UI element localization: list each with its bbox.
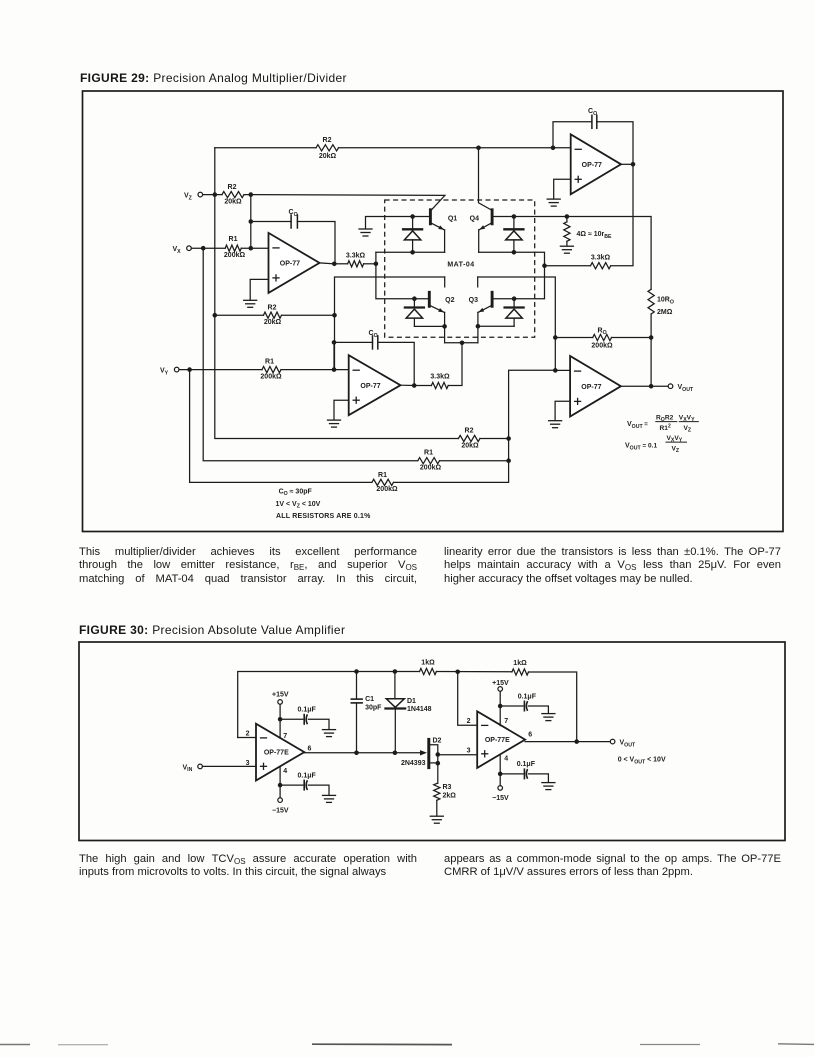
wire node-B vertical (Vz node bus) bbox=[215, 148, 459, 439]
wire bottom R2 bus right segment bbox=[480, 438, 509, 440]
svg-text:10RO: 10RO bbox=[657, 297, 674, 306]
wire 10Ro to Ro node bbox=[650, 314, 652, 338]
resistor R3 2kΩ bbox=[434, 783, 440, 800]
label 10R_O bbox=[657, 297, 674, 306]
formula Vout = RoR2/R1^2 * VxVy/Vz bbox=[627, 414, 698, 433]
label V_IN bbox=[183, 764, 193, 773]
svg-text:VOUT =: VOUT = bbox=[627, 421, 648, 430]
junction minus node / Co line bbox=[249, 219, 254, 224]
svg-text:CO: CO bbox=[289, 209, 298, 218]
junction -15V / bypass bbox=[278, 783, 283, 788]
junction Ro left node bbox=[553, 335, 558, 340]
diode Q4 base-emitter bbox=[504, 217, 523, 253]
label R2 Vz bbox=[228, 184, 237, 191]
paragraph after figure 29, right column bbox=[444, 546, 781, 586]
resistor 1kΩ (right, U6 feedback) bbox=[512, 669, 529, 675]
label pin 7 U5 bbox=[283, 733, 287, 740]
junction U3 minus node bbox=[332, 367, 337, 372]
label 20kΩ top bbox=[319, 153, 337, 160]
svg-text:2MΩ: 2MΩ bbox=[657, 309, 673, 316]
label R3 bbox=[443, 784, 452, 791]
svg-text:0.1μF: 0.1μF bbox=[517, 761, 536, 768]
transistor D2 2N4393 JFET bbox=[429, 739, 438, 767]
capacitor 0.1μF U5 top bbox=[304, 714, 307, 724]
wire D1 bottom bbox=[394, 708, 396, 752]
junction +15V / bypass bbox=[278, 717, 283, 722]
wire bridge down to 3.3k (U3 out) bbox=[448, 343, 462, 386]
label 0.1μF U6 bottom bbox=[517, 761, 536, 768]
wire Co to U2 output bbox=[597, 122, 633, 165]
wire emitter node vertical to Q2 base bbox=[376, 252, 429, 298]
note 1V < Vz < 10V bbox=[276, 501, 321, 510]
ground U4 plus bbox=[549, 421, 562, 428]
label pin 6 U5 bbox=[308, 745, 312, 752]
svg-text:VOUT = 0.1: VOUT = 0.1 bbox=[625, 443, 657, 452]
svg-text:R1: R1 bbox=[424, 449, 433, 456]
junction top line / U2 feedback cap bbox=[551, 146, 556, 151]
svg-text:4: 4 bbox=[504, 756, 508, 763]
wire Ro left bbox=[555, 337, 592, 339]
wire -15V to U6 pin4 bbox=[499, 756, 501, 786]
resistor 10R_O 2MΩ bbox=[648, 289, 654, 314]
label 2N4393 bbox=[401, 760, 426, 767]
capacitor 0.1μF U6 bottom bbox=[524, 769, 527, 779]
terminal +15V U5 bbox=[278, 700, 283, 705]
junction riser / bus2 bbox=[506, 458, 511, 463]
label 3.3kΩ U1 bbox=[346, 253, 366, 260]
svg-text:20kΩ: 20kΩ bbox=[264, 319, 282, 326]
svg-text:R1: R1 bbox=[378, 472, 387, 479]
capacitor C1 30pF bbox=[351, 699, 362, 703]
wire D1 top bbox=[394, 672, 396, 699]
wire Q4 collector vertical to U2 minus line bbox=[479, 148, 491, 210]
terminal V_Z bbox=[198, 192, 203, 197]
ground bypass U5 bottom bbox=[323, 795, 336, 802]
wire U3 plus to ground bbox=[334, 400, 349, 420]
junction Vx node-A bbox=[201, 246, 206, 251]
formula Vout = 0.1 VxVy/Vz bbox=[625, 435, 687, 454]
terminal V_X bbox=[187, 246, 192, 251]
label 0.1μF U5 bottom bbox=[298, 772, 317, 779]
svg-text:OP-77E: OP-77E bbox=[264, 750, 289, 757]
svg-text:20kΩ: 20kΩ bbox=[319, 153, 337, 160]
svg-text:1N4148: 1N4148 bbox=[407, 706, 432, 713]
op-amp U2 OP-77 bbox=[571, 134, 621, 194]
svg-text:3.3kΩ: 3.3kΩ bbox=[591, 255, 611, 262]
label 20kΩ fb bbox=[264, 319, 282, 326]
junction Q4 base / diode bbox=[512, 214, 517, 219]
label R1 middle bus bbox=[424, 449, 433, 456]
wire Vy to R1 bbox=[179, 369, 262, 371]
junction U3 fb / Co line bbox=[332, 340, 337, 345]
label 0.1μF U5 top bbox=[298, 707, 317, 714]
svg-text:3.3kΩ: 3.3kΩ bbox=[430, 374, 450, 381]
svg-text:Q4: Q4 bbox=[470, 216, 479, 223]
svg-text:VIN: VIN bbox=[183, 764, 193, 773]
wire C1 top bbox=[356, 672, 358, 700]
junction node-B / R2 fb bbox=[213, 313, 218, 318]
wire Q2 emitter to bridge bbox=[444, 326, 446, 342]
op-amp U6 OP-77E bbox=[477, 711, 525, 768]
wire bypass to ground (U5 bottom) bbox=[308, 785, 329, 795]
resistor 1kΩ (left) bbox=[420, 668, 437, 674]
junction -15V U6 / bypass bbox=[498, 772, 503, 777]
junction U4 output / feedback bbox=[649, 384, 654, 389]
label V_X bbox=[173, 246, 182, 255]
svg-text:CO: CO bbox=[588, 108, 597, 117]
wire Ro node to Vout node bbox=[650, 338, 652, 387]
wire C1 bottom bbox=[356, 703, 358, 753]
svg-text:VOUT: VOUT bbox=[678, 384, 694, 393]
figure 29 border frame bbox=[83, 91, 784, 532]
wire top R2 line right segment to U2 inverting input bbox=[339, 147, 571, 149]
terminal -15V U6 bbox=[498, 786, 503, 791]
resistor 3.3kΩ (U1 output) bbox=[348, 261, 364, 267]
svg-text:OP-77E: OP-77E bbox=[485, 737, 510, 744]
terminal V_IN bbox=[198, 764, 203, 769]
wire Q1 base with ground bbox=[366, 217, 430, 229]
svg-text:0 < VOUT < 10V: 0 < VOUT < 10V bbox=[618, 757, 666, 766]
wire Q3 emitter to bridge bbox=[477, 326, 479, 343]
wire middle bus right segment bbox=[440, 460, 509, 462]
wire U1 out to 3.3k bbox=[334, 263, 347, 265]
diode Q1 base-emitter bbox=[403, 217, 422, 253]
capacitor C_O (U1 feedback) bbox=[291, 215, 297, 228]
svg-text:RO: RO bbox=[598, 327, 607, 336]
junction D2 source / R3 bbox=[436, 761, 441, 766]
arrow JFET gate bbox=[420, 750, 427, 755]
wire Q4 emitter vertical bbox=[478, 230, 480, 252]
label R2 fb bbox=[268, 304, 277, 311]
wire U1 plus input to ground bbox=[250, 279, 268, 300]
wire bypass cap top (U5) bbox=[280, 718, 303, 720]
scan mark bottom 2 bbox=[312, 1043, 452, 1045]
resistor R2 (20k, Vz input) bbox=[222, 192, 244, 198]
wire U1 output bbox=[320, 262, 335, 265]
wire U4 minus input bbox=[555, 369, 570, 371]
wire R1 Vy to U3 minus bbox=[281, 369, 349, 371]
wire R3 to ground bbox=[436, 800, 438, 816]
op-amp U3 OP-77 bbox=[349, 355, 401, 415]
capacitor C_O (U3 feedback) bbox=[373, 336, 378, 349]
label R1 Vx bbox=[229, 236, 238, 243]
wire Q2 collector vertical bbox=[444, 277, 446, 287]
terminal V_OUT fig30 bbox=[610, 739, 615, 744]
resistor 3.3kΩ (U2 output) bbox=[591, 263, 611, 269]
junction rail / C1 bbox=[354, 669, 359, 674]
svg-text:VOUT: VOUT bbox=[620, 740, 636, 749]
junction Q1 base / diode bbox=[410, 214, 415, 219]
label 200kΩ middle bus bbox=[420, 465, 442, 472]
wire Q3 diode to emitter bbox=[478, 325, 514, 327]
junction Q4 bus / 3.3k right bbox=[542, 263, 547, 268]
label R1 bottom bus bbox=[378, 472, 387, 479]
junction U4 minus bbox=[553, 368, 558, 373]
resistor R1 (200k, middle bus) bbox=[418, 458, 440, 464]
junction rail / D1 bbox=[393, 669, 398, 674]
note all resistors bbox=[276, 513, 371, 520]
junction Q4 base / 4ohm bbox=[565, 214, 570, 219]
junction D2 drain / output bbox=[436, 752, 441, 757]
svg-text:200kΩ: 200kΩ bbox=[376, 486, 398, 493]
label R2 top bbox=[323, 137, 332, 144]
wire U2 output bbox=[621, 163, 633, 165]
svg-text:1kΩ: 1kΩ bbox=[421, 660, 435, 667]
svg-text:VZ: VZ bbox=[184, 193, 193, 202]
label pin 3 U6 bbox=[467, 748, 471, 755]
junction U1 inverting input bbox=[249, 246, 254, 251]
svg-text:0.1μF: 0.1μF bbox=[298, 772, 317, 779]
ground U1 plus bbox=[244, 300, 257, 307]
label 4Ω ≈ 10r_BE bbox=[577, 231, 612, 240]
label 30pF bbox=[365, 705, 382, 712]
wire Q2 diode to emitter bbox=[414, 325, 444, 327]
label 3.3kΩ U3 bbox=[430, 374, 450, 381]
svg-text:R12: R12 bbox=[660, 423, 671, 432]
resistor 3.3kΩ (U3 output) bbox=[431, 382, 448, 388]
junction U6 output / feedback bbox=[574, 739, 579, 744]
svg-text:D2: D2 bbox=[433, 737, 442, 744]
svg-text:7: 7 bbox=[283, 733, 287, 740]
resistor R2 (20k, Q2 collector feedback) bbox=[264, 312, 282, 318]
diode D1 1N4148 bbox=[386, 699, 406, 709]
label 1kΩ right bbox=[513, 660, 527, 667]
svg-text:R1: R1 bbox=[229, 236, 238, 243]
MAT-04 dashed outline bbox=[385, 200, 535, 337]
svg-text:OP-77: OP-77 bbox=[582, 162, 602, 169]
label +15V U5 bbox=[272, 692, 289, 699]
diode Q2 base-emitter bbox=[405, 299, 424, 327]
svg-text:1kΩ: 1kΩ bbox=[513, 660, 527, 667]
svg-text:200kΩ: 200kΩ bbox=[420, 465, 442, 472]
figure 30 border frame bbox=[79, 642, 785, 841]
junction Q3 base / diode bbox=[512, 296, 517, 301]
wire Vz line to Q1 collector bbox=[244, 195, 445, 210]
caption figure 29 bbox=[80, 71, 347, 85]
wire Ro right bbox=[612, 337, 652, 339]
wire bypass to ground (U6 top) bbox=[529, 706, 549, 713]
transistor Q4 (MAT-04) bbox=[470, 210, 492, 230]
svg-text:OP-77: OP-77 bbox=[581, 384, 601, 391]
label 200kΩ bottom bus bbox=[376, 486, 398, 493]
svg-text:3.3kΩ: 3.3kΩ bbox=[346, 253, 366, 260]
wire -15V to U5 pin4 bbox=[279, 767, 281, 798]
label R2 bottom bus bbox=[465, 427, 474, 434]
junction Vy node-C bbox=[187, 367, 192, 372]
wire +15V to U5 pin7 bbox=[279, 704, 281, 738]
label 20kΩ bottom bus bbox=[461, 443, 479, 450]
wire bypass cap top (U6) bbox=[500, 705, 523, 707]
svg-text:3: 3 bbox=[467, 748, 471, 755]
wire Vx to R1 bbox=[191, 247, 225, 249]
scan mark bottom 1 bbox=[0, 1044, 108, 1046]
wire U2 output vertical to 3.3k bbox=[611, 164, 633, 265]
wire Q3 emitter vertical bbox=[477, 312, 479, 326]
svg-text:20kΩ: 20kΩ bbox=[461, 443, 479, 450]
ground bypass U5 top bbox=[323, 730, 336, 737]
ground Q1 base bbox=[359, 229, 372, 236]
label pin 3 U5 bbox=[246, 760, 250, 767]
terminal -15V U5 bbox=[278, 798, 283, 803]
wire U2 plus to ground bbox=[554, 179, 571, 199]
svg-text:VZ: VZ bbox=[684, 425, 692, 434]
wire U5 output line bbox=[304, 752, 421, 754]
ground R3 bbox=[430, 816, 443, 823]
op-amp U1 OP-77 bbox=[269, 233, 320, 293]
label 200kΩ Ro bbox=[591, 343, 613, 350]
svg-text:200kΩ: 200kΩ bbox=[224, 252, 246, 259]
label 20kΩ Vz bbox=[224, 199, 242, 206]
junction Ro right node bbox=[649, 335, 654, 340]
svg-text:6: 6 bbox=[528, 732, 532, 739]
wire bottom bus right segment to U4 minus riser bbox=[394, 370, 556, 482]
svg-text:VX: VX bbox=[173, 246, 182, 255]
svg-text:4Ω ≈ 10rBE: 4Ω ≈ 10rBE bbox=[577, 231, 612, 240]
label V_Z bbox=[184, 193, 193, 202]
wire Q4 base line to 10Ro corner bbox=[493, 217, 651, 290]
resistor R1 (200k, Vx input) bbox=[225, 245, 241, 251]
wire Co right segment to U3 output bbox=[378, 342, 414, 385]
capacitor 0.1μF U6 top bbox=[524, 701, 527, 711]
label 0.1μF U6 top bbox=[518, 693, 537, 700]
resistor R1 (200k, Vy input) bbox=[262, 367, 281, 373]
wire 1k to U6 output bbox=[529, 672, 577, 742]
scan mark bottom 3 bbox=[640, 1043, 814, 1046]
wire U6 minus vertical + input bbox=[458, 672, 478, 726]
svg-text:Q1: Q1 bbox=[448, 216, 457, 223]
svg-text:D1: D1 bbox=[407, 698, 416, 705]
svg-text:R2: R2 bbox=[465, 427, 474, 434]
transistor Q3 (MAT-04) bbox=[469, 292, 492, 312]
ground 4Ω bbox=[560, 246, 573, 253]
svg-text:−15V: −15V bbox=[272, 807, 289, 814]
wire Co left segment (U3) bbox=[334, 341, 373, 343]
junction U2 output bbox=[631, 162, 636, 167]
terminal +15V U6 bbox=[498, 687, 503, 692]
wire Q1 emitter vertical bbox=[444, 230, 446, 252]
svg-text:30pF: 30pF bbox=[365, 705, 382, 712]
ground bypass U6 bottom bbox=[542, 783, 555, 790]
svg-text:2: 2 bbox=[467, 718, 471, 725]
junction Vz node-B bbox=[213, 192, 218, 197]
svg-text:+15V: +15V bbox=[272, 692, 289, 699]
wire Q4 emitter bus to 3.3k node bbox=[479, 252, 545, 298]
label output range bbox=[618, 757, 666, 766]
note Co ≈ 30pF bbox=[279, 488, 313, 497]
wire U2 feedback vertical bbox=[553, 122, 592, 148]
label V_OUT fig30 bbox=[620, 740, 636, 749]
svg-text:2: 2 bbox=[246, 730, 250, 737]
svg-text:CO: CO bbox=[369, 330, 378, 339]
junction U3 output node bbox=[412, 383, 417, 388]
wire 3.3k to emitter node bbox=[364, 263, 376, 265]
wire bypass to ground (U5 top) bbox=[308, 719, 329, 729]
label pin 4 U5 bbox=[283, 768, 287, 775]
svg-text:ALL RESISTORS ARE 0.1%: ALL RESISTORS ARE 0.1% bbox=[276, 513, 371, 520]
svg-text:OP-77: OP-77 bbox=[360, 383, 380, 390]
label C1 bbox=[365, 696, 374, 703]
paragraph after figure 30, right column bbox=[444, 853, 781, 880]
wire Co right segment down to U1 output bbox=[297, 222, 335, 264]
svg-text:R1: R1 bbox=[265, 358, 274, 365]
wire Vin to U5 plus bbox=[202, 765, 256, 767]
diode Q3 base-emitter bbox=[505, 299, 524, 327]
wire emitter bridge bbox=[445, 342, 478, 344]
wire bypass cap bottom (U5) bbox=[280, 784, 303, 786]
wire Q3 collector line to A4 minus node bbox=[478, 277, 556, 371]
svg-text:7: 7 bbox=[504, 718, 508, 725]
wire U6 output to Vout bbox=[525, 741, 610, 743]
op-amp U4 OP-77 bbox=[570, 356, 621, 417]
wire Q3 collector vertical bbox=[477, 277, 479, 287]
svg-text:Q2: Q2 bbox=[445, 297, 454, 304]
svg-text:0.1μF: 0.1μF bbox=[298, 707, 317, 714]
wire Q1 emitter bus bbox=[376, 251, 445, 253]
junction Q2 emitter node bbox=[442, 324, 447, 329]
svg-text:+15V: +15V bbox=[492, 680, 509, 687]
svg-text:200kΩ: 200kΩ bbox=[591, 343, 613, 350]
junction 3.3k / Q1-Q2 emitters bbox=[374, 262, 379, 267]
op-amp U5 OP-77E bbox=[256, 724, 304, 781]
junction out / C1 bbox=[354, 751, 359, 756]
wire D2 to U6 plus bbox=[438, 754, 477, 756]
transistor Q2 (MAT-04) bbox=[429, 292, 454, 312]
paragraph after figure 29, left column bbox=[79, 546, 417, 586]
wire U3 feedback vertical bbox=[333, 342, 335, 369]
svg-text:R2: R2 bbox=[323, 137, 332, 144]
label 2kΩ bbox=[443, 792, 457, 799]
resistor 4Ω (10 r_BE) bbox=[564, 217, 570, 246]
label 3.3kΩ U2 bbox=[591, 255, 611, 262]
svg-text:R2: R2 bbox=[228, 184, 237, 191]
wire top R2 feedback line left segment bbox=[215, 147, 316, 149]
wire U3 output bbox=[401, 384, 415, 386]
label pin 4 U6 bbox=[504, 756, 508, 763]
caption figure 30 bbox=[79, 623, 345, 637]
label pin 2 U6 bbox=[467, 718, 471, 725]
capacitor 0.1μF U5 bottom bbox=[304, 780, 307, 790]
label 1N4148 bbox=[407, 706, 432, 713]
wire node-A vertical (Vx bus) bbox=[203, 248, 418, 461]
junction out / D1 bbox=[393, 751, 398, 756]
junction U1 output node bbox=[332, 262, 337, 267]
junction Q2 base / diode bbox=[412, 296, 417, 301]
wire +15V to U6 pin7 bbox=[499, 691, 501, 725]
svg-text:OP-77: OP-77 bbox=[280, 261, 300, 268]
label pin 7 U6 bbox=[504, 718, 508, 725]
label 200kΩ Vy bbox=[260, 374, 282, 381]
wire 3.3k U2 to Q3 base node bbox=[545, 265, 591, 267]
wire node-B to R2 fb bbox=[215, 314, 264, 316]
svg-text:0.1μF: 0.1μF bbox=[518, 693, 537, 700]
label C_O (U2) bbox=[588, 108, 597, 117]
wire U5 minus input bbox=[238, 737, 256, 739]
label R1 Vy bbox=[265, 358, 274, 365]
wire R2 fb to A3-minus vertical bbox=[282, 314, 335, 316]
junction emitter bridge center bbox=[460, 341, 465, 346]
junction +15V U6 / bypass bbox=[498, 704, 503, 709]
label C_O (U1) bbox=[289, 209, 298, 218]
wire Co left segment (U1) bbox=[251, 221, 291, 223]
wire U4 plus to ground bbox=[555, 401, 570, 420]
capacitor C_O (U2 feedback) bbox=[592, 115, 597, 128]
label -15V U6 bbox=[492, 795, 509, 802]
label D1 bbox=[407, 698, 416, 705]
svg-text:1V < VZ < 10V: 1V < VZ < 10V bbox=[276, 501, 321, 510]
svg-text:Q3: Q3 bbox=[469, 297, 478, 304]
svg-text:−15V: −15V bbox=[492, 795, 509, 802]
wire Q2 emitter vertical bbox=[444, 312, 446, 326]
